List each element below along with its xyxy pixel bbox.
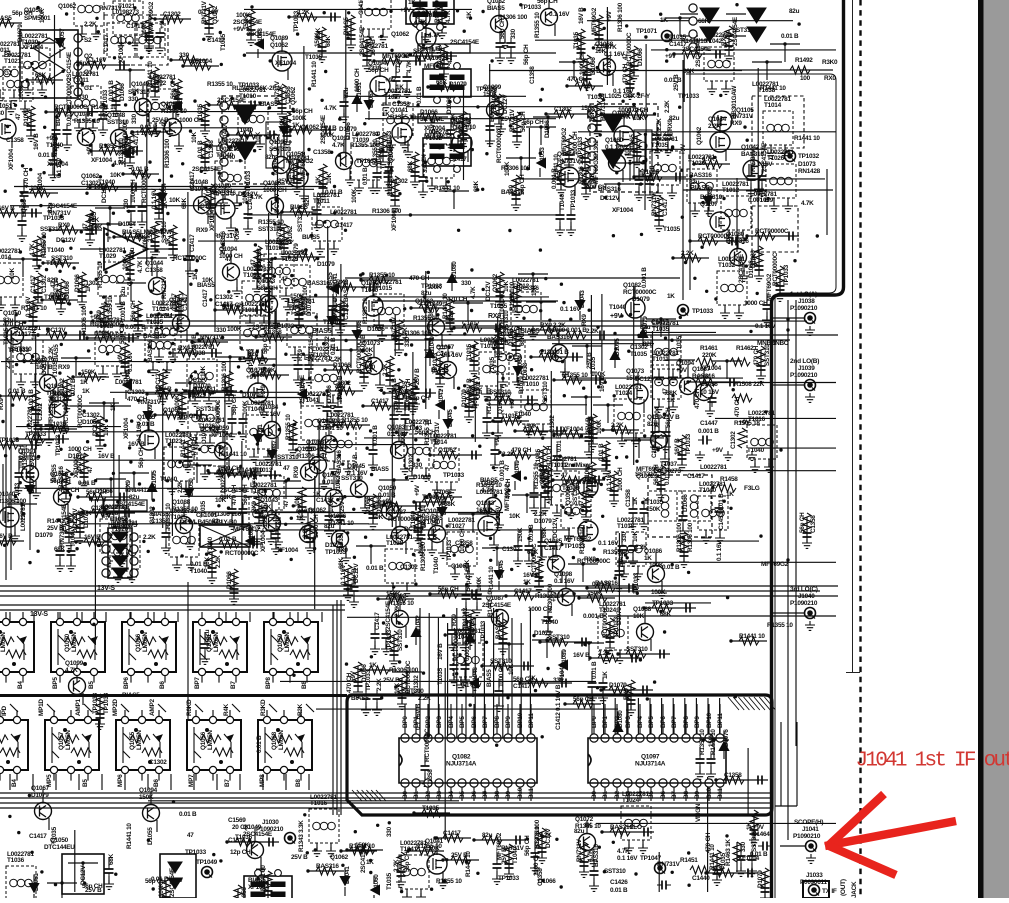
svg-text:D1079: D1079: [757, 870, 764, 888]
svg-text:56p CH: 56p CH: [292, 108, 313, 115]
svg-text:100K: 100K: [351, 188, 358, 203]
svg-text:T1040: T1040: [70, 529, 77, 547]
svg-text:1K: 1K: [131, 88, 139, 95]
svg-text:TP1033: TP1033: [185, 849, 207, 856]
svg-text:MFT69G2: MFT69G2: [766, 273, 773, 301]
svg-text:Q1095: Q1095: [269, 139, 288, 146]
svg-text:150K: 150K: [646, 506, 661, 513]
svg-text:470 CH: 470 CH: [753, 345, 760, 366]
svg-text:Q1080: Q1080: [547, 327, 566, 334]
svg-text:100K: 100K: [400, 430, 407, 445]
svg-text:47: 47: [622, 53, 629, 60]
svg-text:R1355 10: R1355 10: [562, 372, 588, 379]
svg-text:MP2D: MP2D: [112, 699, 119, 716]
svg-text:Q1048: Q1048: [190, 179, 209, 186]
svg-text:T1040: T1040: [541, 619, 559, 626]
svg-text:1000 CH: 1000 CH: [744, 300, 768, 307]
svg-text:56p CH: 56p CH: [799, 512, 806, 533]
svg-text:0.1 16V: 0.1 16V: [606, 470, 613, 491]
svg-text:330: 330: [123, 198, 130, 209]
svg-text:T1035: T1035: [422, 805, 440, 812]
svg-text:C1417: C1417: [133, 135, 140, 153]
svg-text:T1040: T1040: [323, 319, 341, 326]
svg-text:MP6: MP6: [117, 774, 124, 787]
svg-text:BP6: BP6: [471, 716, 478, 728]
svg-text:D1066: D1066: [544, 120, 551, 138]
svg-text:Q1083: Q1083: [387, 424, 406, 431]
svg-text:RX9: RX9: [58, 222, 70, 229]
svg-text:Q1048: Q1048: [414, 12, 433, 19]
svg-text:L0022781: L0022781: [651, 136, 678, 143]
svg-text:XF1004: XF1004: [275, 60, 297, 67]
svg-text:2.2K: 2.2K: [143, 534, 156, 541]
svg-text:0.01 B: 0.01 B: [556, 434, 563, 452]
svg-text:LM05N: LM05N: [0, 632, 7, 652]
svg-text:L0022781: L0022781: [652, 350, 679, 357]
svg-text:T1013: T1013: [255, 467, 273, 474]
svg-text:T1035: T1035: [466, 343, 473, 361]
svg-text:68K: 68K: [338, 557, 345, 569]
svg-text:BP9: BP9: [694, 716, 701, 728]
svg-text:L0022781: L0022781: [386, 534, 413, 541]
svg-text:BP1: BP1: [602, 716, 609, 728]
svg-text:56p CH: 56p CH: [242, 484, 249, 505]
svg-text:BAS316: BAS316: [726, 238, 749, 245]
svg-text:2.2K: 2.2K: [681, 250, 694, 257]
svg-text:150K: 150K: [581, 105, 596, 112]
svg-text:56p CH: 56p CH: [177, 413, 198, 420]
svg-text:L0022781: L0022781: [243, 266, 270, 273]
svg-text:B7: B7: [224, 779, 231, 787]
svg-text:BP4: BP4: [448, 716, 455, 728]
svg-text:F3LG: F3LG: [744, 485, 760, 492]
svg-text:0.001 B: 0.001 B: [548, 349, 569, 356]
svg-text:RCT00000C: RCT00000C: [388, 516, 422, 523]
svg-text:1000 CH: 1000 CH: [459, 528, 466, 552]
svg-text:R1461: R1461: [700, 345, 718, 352]
svg-text:BIAS5: BIAS5: [690, 185, 710, 192]
svg-text:T1035: T1035: [437, 667, 444, 685]
svg-text:D1095: D1095: [248, 525, 255, 543]
svg-text:Q1078: Q1078: [296, 508, 315, 515]
svg-text:BP3: BP3: [625, 716, 632, 728]
svg-text:0.1 16V: 0.1 16V: [461, 682, 482, 689]
svg-text:D1079: D1079: [609, 682, 627, 689]
svg-text:R1441 10: R1441 10: [794, 135, 820, 142]
svg-text:D1095: D1095: [614, 338, 621, 356]
svg-text:LM05N: LM05N: [0, 730, 1, 750]
svg-text:T1040: T1040: [609, 304, 627, 311]
svg-text:L0022781: L0022781: [454, 628, 481, 635]
svg-text:BIAS5: BIAS5: [487, 5, 505, 12]
svg-text:2.2K: 2.2K: [84, 21, 97, 28]
svg-text:AMP2: AMP2: [149, 699, 156, 716]
svg-text:25V B: 25V B: [663, 414, 680, 421]
svg-text:T1033: T1033: [312, 352, 330, 359]
svg-text:1K: 1K: [523, 579, 531, 586]
svg-text:RX9: RX9: [0, 398, 5, 410]
svg-text:C1417: C1417: [103, 34, 110, 52]
svg-text:T1026: T1026: [767, 155, 785, 162]
svg-text:C1426: C1426: [610, 879, 628, 886]
svg-text:1K: 1K: [80, 379, 88, 386]
svg-text:D1066: D1066: [748, 260, 755, 278]
svg-text:0.01 B: 0.01 B: [598, 443, 605, 461]
svg-text:3K R.FIL: 3K R.FIL: [420, 116, 444, 123]
svg-text:T1035: T1035: [573, 31, 580, 49]
svg-text:P0090611: P0090611: [800, 879, 827, 886]
svg-text:2.2K: 2.2K: [664, 100, 671, 113]
svg-text:T1042: T1042: [705, 38, 723, 45]
svg-text:L0022781: L0022781: [599, 601, 626, 608]
svg-text:RN731V: RN731V: [391, 316, 398, 340]
svg-text:XF1004: XF1004: [91, 157, 113, 164]
svg-text:D1066: D1066: [333, 362, 351, 369]
svg-text:R1355 10: R1355 10: [118, 138, 125, 164]
svg-text:Q1043: Q1043: [257, 278, 276, 285]
svg-text:C1302: C1302: [593, 140, 600, 158]
svg-text:150K: 150K: [243, 15, 250, 30]
svg-text:L0022781: L0022781: [722, 181, 749, 188]
svg-text:DC12V: DC12V: [600, 195, 620, 202]
svg-text:MFT69G2: MFT69G2: [286, 158, 314, 165]
svg-text:56p CH: 56p CH: [231, 394, 238, 415]
svg-text:Q1083: Q1083: [476, 500, 495, 507]
svg-text:220K: 220K: [702, 352, 717, 359]
svg-text:L0022781: L0022781: [189, 386, 216, 393]
svg-text:RCT00000C: RCT00000C: [755, 228, 789, 235]
svg-text:470 CH: 470 CH: [346, 672, 353, 693]
svg-text:10K: 10K: [392, 385, 404, 392]
svg-text:BAS316: BAS316: [343, 279, 350, 302]
svg-text:D1066: D1066: [434, 489, 452, 496]
svg-text:RX0: RX0: [824, 75, 836, 82]
svg-text:Q1080: Q1080: [726, 231, 745, 238]
svg-text:C1417: C1417: [436, 351, 454, 358]
svg-text:10K: 10K: [169, 197, 181, 204]
svg-text:R1451: R1451: [680, 857, 698, 864]
svg-text:C1358: C1358: [810, 515, 817, 533]
svg-text:330: 330: [78, 94, 89, 101]
svg-text:Q1062: Q1062: [58, 3, 77, 10]
svg-text:+: +: [108, 235, 112, 242]
svg-text:16V B: 16V B: [370, 39, 377, 56]
svg-text:B5: B5: [648, 791, 655, 799]
svg-text:BAS316: BAS316: [336, 450, 343, 473]
svg-text:1K: 1K: [315, 176, 322, 184]
svg-text:R1306 100: R1306 100: [221, 361, 228, 391]
svg-text:P1090210: P1090210: [793, 833, 821, 840]
svg-text:68K: 68K: [220, 494, 232, 501]
svg-text:L0022781: L0022781: [400, 840, 427, 847]
svg-text:56p CH: 56p CH: [409, 395, 430, 402]
svg-text:Q1088: Q1088: [172, 499, 191, 506]
svg-text:82u: 82u: [129, 247, 136, 258]
svg-text:Q1049: Q1049: [424, 301, 443, 308]
svg-text:C1417: C1417: [358, 0, 365, 15]
svg-text:T1040: T1040: [747, 447, 765, 454]
svg-text:L0022781: L0022781: [21, 33, 48, 40]
svg-text:R1441 10: R1441 10: [488, 566, 495, 592]
svg-text:D1073: D1073: [798, 161, 816, 168]
svg-text:HSB88WS: HSB88WS: [108, 522, 138, 529]
svg-text:4.7K: 4.7K: [29, 243, 36, 256]
svg-text:+9V: +9V: [680, 143, 687, 155]
svg-text:82u: 82u: [482, 832, 493, 839]
svg-text:68K: 68K: [436, 79, 448, 86]
svg-text:10K: 10K: [260, 504, 272, 511]
svg-text:R1355 10: R1355 10: [48, 395, 55, 421]
svg-text:68K: 68K: [108, 853, 115, 865]
svg-text:Q1080: Q1080: [213, 183, 232, 190]
svg-text:1st LO(A): 1st LO(A): [790, 291, 817, 298]
svg-text:L0022781: L0022781: [288, 298, 315, 305]
svg-text:LM05N: LM05N: [142, 632, 149, 652]
svg-text:10K: 10K: [394, 682, 401, 694]
svg-text:R1441 10: R1441 10: [221, 451, 247, 458]
svg-text:DC12V: DC12V: [485, 281, 492, 301]
svg-text:B1: B1: [413, 791, 420, 799]
svg-text:Q1: Q1: [84, 69, 93, 76]
svg-text:TP1033: TP1033: [480, 620, 487, 642]
svg-text:D1057: D1057: [59, 28, 66, 46]
svg-text:10K: 10K: [362, 347, 374, 354]
svg-text:47: 47: [87, 466, 94, 473]
svg-text:10K: 10K: [595, 48, 607, 55]
svg-text:MNBC: MNBC: [770, 340, 789, 347]
svg-text:Q1098: Q1098: [554, 571, 573, 578]
svg-text:+9V: +9V: [117, 351, 124, 363]
svg-text:T1021: T1021: [4, 58, 22, 65]
svg-text:100K: 100K: [427, 284, 442, 291]
svg-text:0.1 16V: 0.1 16V: [127, 351, 134, 372]
svg-text:4.7K: 4.7K: [445, 10, 452, 23]
svg-text:C1302: C1302: [395, 55, 402, 73]
svg-text:0.01 B: 0.01 B: [140, 124, 158, 131]
svg-text:25V B: 25V B: [584, 68, 601, 75]
svg-text:82u: 82u: [789, 8, 800, 15]
svg-text:L0022781: L0022781: [149, 74, 176, 81]
svg-text:0.001 B: 0.001 B: [125, 324, 146, 331]
svg-text:L0022781: L0022781: [767, 149, 794, 156]
svg-text:JACK: JACK: [851, 881, 858, 898]
svg-text:BP6: BP6: [123, 677, 130, 689]
svg-text:0.01 B: 0.01 B: [197, 140, 204, 158]
svg-text:10K: 10K: [633, 613, 645, 620]
svg-text:Q1057: Q1057: [436, 344, 455, 351]
svg-text:25V B: 25V B: [339, 495, 346, 512]
svg-text:L0022781: L0022781: [0, 248, 21, 255]
svg-text:TP1032: TP1032: [798, 153, 820, 160]
svg-text:Q1045: Q1045: [347, 463, 366, 470]
svg-text:2SC4154E: 2SC4154E: [360, 843, 367, 873]
svg-text:25V B: 25V B: [414, 368, 421, 385]
svg-text:L0022781: L0022781: [384, 88, 411, 95]
svg-text:R1441 10: R1441 10: [739, 633, 765, 640]
svg-text:1K: 1K: [584, 822, 592, 829]
svg-text:0.001 B: 0.001 B: [566, 327, 587, 334]
svg-text:0.001 B: 0.001 B: [698, 428, 719, 435]
svg-text:+9V: +9V: [676, 367, 688, 374]
svg-text:47: 47: [281, 276, 288, 283]
svg-text:Q1067: Q1067: [692, 366, 711, 373]
svg-text:SST310: SST310: [572, 483, 579, 505]
svg-text:0.01 B: 0.01 B: [750, 851, 768, 858]
svg-text:D1060: D1060: [373, 874, 380, 892]
svg-text:C1358: C1358: [145, 267, 163, 274]
svg-text:D1066: D1066: [74, 274, 81, 292]
svg-text:C1302: C1302: [127, 389, 145, 396]
svg-text:RX9: RX9: [58, 364, 70, 371]
svg-text:BP9: BP9: [505, 716, 512, 728]
svg-text:150K: 150K: [483, 91, 498, 98]
svg-text:XF1004: XF1004: [277, 547, 299, 554]
svg-text:T1040: T1040: [47, 247, 65, 254]
svg-text:2.2K: 2.2K: [611, 422, 624, 429]
svg-text:BAS316: BAS316: [593, 844, 600, 867]
svg-text:T1012: T1012: [149, 80, 167, 87]
svg-text:82u: 82u: [120, 286, 127, 297]
svg-text:0.1 16V: 0.1 16V: [198, 9, 219, 16]
svg-text:470 CH: 470 CH: [705, 832, 712, 853]
svg-text:150K: 150K: [81, 369, 96, 376]
svg-text:68K: 68K: [660, 611, 672, 618]
svg-text:R1462: R1462: [736, 345, 754, 352]
svg-text:D1050: D1050: [188, 478, 195, 496]
svg-text:L0022781: L0022781: [0, 41, 20, 48]
svg-text:T1035: T1035: [273, 158, 280, 176]
svg-text:1000 CH: 1000 CH: [219, 253, 243, 260]
svg-text:470 CH: 470 CH: [231, 484, 238, 505]
svg-text:L0022781: L0022781: [617, 517, 644, 524]
svg-text:68K: 68K: [698, 18, 710, 25]
svg-text:0.001 B: 0.001 B: [372, 425, 379, 446]
svg-text:DC12V: DC12V: [46, 327, 66, 334]
svg-text:L0022781: L0022781: [330, 209, 357, 216]
svg-text:470 CH: 470 CH: [628, 107, 649, 114]
svg-text:D1066: D1066: [119, 83, 126, 101]
svg-text:10K: 10K: [9, 267, 16, 279]
svg-text:B4: B4: [637, 791, 644, 799]
svg-text:T1035: T1035: [91, 211, 98, 229]
svg-text:82u: 82u: [640, 324, 651, 331]
svg-text:L0022781: L0022781: [522, 375, 549, 382]
svg-text:1K: 1K: [643, 497, 650, 505]
svg-text:RX9: RX9: [623, 688, 630, 700]
svg-text:B4: B4: [17, 681, 24, 689]
svg-text:D1084: D1084: [161, 183, 168, 201]
svg-text:RL1024 G6K-2F-Y: RL1024 G6K-2F-Y: [232, 85, 283, 92]
svg-text:T1035: T1035: [386, 872, 393, 890]
svg-text:T1035: T1035: [146, 319, 164, 326]
svg-text:Q1094: Q1094: [368, 60, 387, 67]
svg-text:SPM5001: SPM5001: [24, 15, 51, 22]
svg-text:470 CH: 470 CH: [511, 447, 532, 454]
svg-text:MFT69G2: MFT69G2: [233, 526, 261, 533]
svg-text:B8: B8: [683, 791, 690, 799]
svg-text:56p CH: 56p CH: [524, 835, 531, 856]
svg-text:C1447: C1447: [700, 420, 718, 427]
svg-text:B1: B1: [602, 791, 609, 799]
svg-text:D1076: D1076: [723, 729, 730, 747]
svg-text:10K: 10K: [531, 284, 538, 296]
svg-text:MFT69G2: MFT69G2: [504, 483, 511, 511]
svg-text:R1441 10: R1441 10: [260, 865, 267, 891]
svg-text:RCT00000C: RCT00000C: [623, 289, 657, 296]
svg-text:1K: 1K: [369, 662, 377, 669]
svg-text:SCOPE(H): SCOPE(H): [794, 819, 823, 826]
svg-text:R1306 100: R1306 100: [81, 305, 88, 335]
svg-text:TP1033: TP1033: [293, 10, 300, 32]
svg-text:XF1004: XF1004: [123, 417, 130, 439]
svg-text:D1079: D1079: [222, 304, 240, 311]
svg-text:Q1062: Q1062: [497, 395, 504, 414]
svg-text:TP1033: TP1033: [783, 264, 790, 286]
svg-text:C1417: C1417: [513, 683, 531, 690]
svg-text:2.2K: 2.2K: [5, 356, 12, 369]
svg-text:C1417: C1417: [202, 289, 209, 307]
svg-text:B5: B5: [459, 791, 466, 799]
svg-text:L0022781: L0022781: [615, 384, 642, 391]
svg-text:R1355 10: R1355 10: [699, 729, 706, 755]
svg-text:C1358: C1358: [262, 514, 269, 532]
svg-text:BIAS5: BIAS5: [351, 695, 369, 702]
svg-text:47: 47: [50, 281, 57, 288]
svg-text:D1079: D1079: [534, 518, 552, 525]
svg-text:2.2K: 2.2K: [382, 363, 389, 376]
svg-text:330: 330: [508, 184, 515, 195]
svg-text:Q1056: Q1056: [200, 731, 207, 750]
svg-text:BAS316: BAS316: [595, 580, 618, 587]
svg-text:MFT69G2: MFT69G2: [593, 156, 600, 184]
svg-text:RX9: RX9: [234, 230, 241, 242]
svg-text:RCT00000C: RCT00000C: [772, 252, 779, 286]
svg-text:Q1073: Q1073: [626, 368, 645, 375]
svg-text:R1355 10: R1355 10: [413, 315, 439, 322]
svg-text:1000 CH: 1000 CH: [583, 184, 607, 191]
svg-text:J1038: J1038: [798, 298, 815, 305]
svg-text:C1417: C1417: [462, 320, 480, 327]
svg-text:0.01 B: 0.01 B: [528, 524, 535, 542]
svg-text:C1417: C1417: [335, 222, 353, 229]
svg-text:Q1094: Q1094: [219, 246, 238, 253]
svg-text:470 CH: 470 CH: [734, 396, 741, 417]
svg-text:1K: 1K: [408, 0, 416, 6]
svg-text:RCT00000C: RCT00000C: [531, 543, 538, 577]
svg-text:B9: B9: [505, 791, 512, 799]
svg-text:MP8: MP8: [259, 774, 266, 787]
svg-text:R1306 100: R1306 100: [687, 522, 694, 552]
svg-text:330: 330: [216, 327, 227, 334]
svg-text:TP1033: TP1033: [446, 539, 453, 561]
svg-text:2SC4154E: 2SC4154E: [192, 166, 222, 173]
svg-text:56p CH: 56p CH: [438, 586, 459, 593]
svg-text:Q1049: Q1049: [131, 81, 150, 88]
svg-text:R1441 10: R1441 10: [450, 124, 476, 131]
svg-text:-: -: [108, 257, 110, 264]
svg-text:T1025: T1025: [288, 304, 306, 311]
svg-text:0.1 16V: 0.1 16V: [347, 470, 368, 477]
svg-text:470 CH: 470 CH: [191, 436, 198, 457]
svg-text:D1079: D1079: [201, 426, 208, 444]
svg-text:B2: B2: [614, 791, 621, 799]
svg-text:56p CH: 56p CH: [537, 0, 558, 5]
svg-text:R1306 100: R1306 100: [164, 138, 171, 168]
svg-text:D1079: D1079: [461, 389, 468, 407]
svg-text:Q1073: Q1073: [362, 340, 381, 347]
svg-text:C1417: C1417: [222, 124, 229, 142]
svg-text:XF1004: XF1004: [191, 58, 213, 65]
